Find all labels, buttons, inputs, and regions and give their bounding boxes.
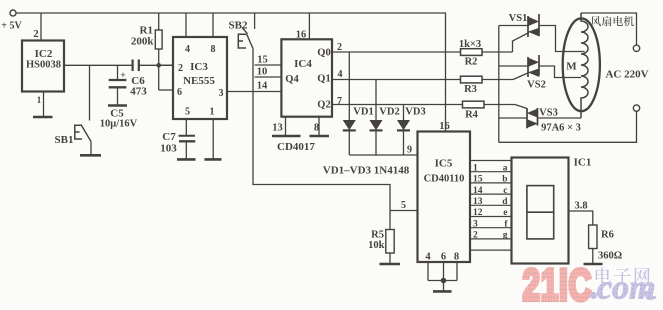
pin label 6 (IC5) bbox=[441, 252, 446, 263]
text VS2 label bbox=[527, 80, 546, 91]
svg-text:SB1: SB1 bbox=[55, 134, 74, 146]
wire IC4 pin 16 bbox=[308, 13, 310, 39]
svg-text:1: 1 bbox=[37, 95, 42, 105]
pin label 1/a segment bbox=[473, 163, 508, 173]
display IC1 digit bbox=[527, 186, 554, 239]
wire IC5 segment ladder a-g bbox=[470, 161, 512, 251]
resistor R6 bbox=[589, 225, 597, 264]
pin label 2/g segment bbox=[473, 231, 508, 241]
svg-text:4: 4 bbox=[185, 44, 190, 55]
wire IC3 pin5 to C7 bbox=[185, 119, 187, 136]
pin label 2 (IC2) bbox=[33, 29, 38, 40]
svg-text:8: 8 bbox=[454, 252, 459, 263]
pin label 13 (IC4) bbox=[272, 123, 283, 134]
svg-text:IC4: IC4 bbox=[294, 58, 312, 70]
svg-text:R5: R5 bbox=[371, 230, 384, 241]
svg-text:g: g bbox=[503, 231, 508, 241]
wire SB1 drop bbox=[89, 65, 91, 120]
value label R4 bbox=[465, 110, 479, 121]
svg-text:b: b bbox=[502, 175, 507, 185]
wire Q0 output bbox=[332, 51, 461, 53]
svg-text:HS0038: HS0038 bbox=[26, 60, 61, 71]
svg-text:473: 473 bbox=[130, 86, 147, 98]
wire IC4 pin 8 bbox=[318, 117, 320, 136]
svg-text:7: 7 bbox=[337, 96, 342, 107]
svg-text:5: 5 bbox=[185, 107, 190, 118]
svg-text:13: 13 bbox=[272, 123, 283, 134]
svg-text:IC3: IC3 bbox=[190, 61, 208, 73]
text VS1 label bbox=[509, 13, 528, 24]
svg-text:4: 4 bbox=[425, 252, 431, 263]
ground (R6) bbox=[584, 263, 603, 266]
resistor R3 bbox=[461, 76, 514, 83]
svg-text:12: 12 bbox=[473, 208, 483, 218]
switch SB1 bbox=[75, 125, 91, 155]
ground (IC2 pin1) bbox=[33, 116, 53, 119]
svg-text:5: 5 bbox=[401, 200, 406, 211]
text VD2 label bbox=[379, 107, 399, 118]
text VD1-VD3 1N4148 bbox=[323, 165, 410, 177]
pin label Q0 (IC4) bbox=[317, 48, 330, 59]
value label C5 bbox=[110, 108, 124, 120]
svg-text:com: com bbox=[597, 270, 656, 307]
ground (IC5) bbox=[433, 290, 452, 293]
svg-text:AC 220V: AC 220V bbox=[605, 69, 648, 81]
svg-text:1: 1 bbox=[473, 163, 478, 173]
pin label 4 (IC5) bbox=[425, 252, 431, 263]
wire IC3 pin3 to IC4 pin14 bbox=[227, 91, 281, 93]
counter IC5 CD40110 bbox=[418, 132, 471, 263]
resistor R5 bbox=[386, 211, 394, 264]
pin label 4 (IC3) bbox=[185, 44, 190, 55]
svg-text:14: 14 bbox=[473, 186, 483, 196]
watermark dot bbox=[590, 292, 597, 299]
svg-text:VS3: VS3 bbox=[539, 108, 558, 119]
wire SB2 top contact bbox=[254, 13, 256, 29]
text fan motor label bbox=[591, 16, 634, 26]
svg-text:R3: R3 bbox=[464, 84, 477, 95]
pin label 4 (IC4) bbox=[338, 69, 343, 80]
wire SB2 to IC5 pin5 bbox=[253, 49, 390, 211]
diode VD3 bbox=[397, 105, 410, 156]
text VD3 label bbox=[405, 107, 425, 118]
text VS3 label bbox=[539, 108, 558, 119]
svg-text:14: 14 bbox=[257, 81, 268, 92]
wire junction to IC3 pin6 bbox=[159, 89, 173, 91]
wire IC5 pin 5 bbox=[390, 210, 418, 212]
svg-text:Q1: Q1 bbox=[317, 74, 330, 85]
svg-text:2: 2 bbox=[33, 29, 38, 40]
pin label Q2 (IC4) bbox=[317, 100, 330, 111]
svg-text:1k×3: 1k×3 bbox=[459, 39, 481, 50]
svg-text:R4: R4 bbox=[465, 110, 479, 121]
ground (C5) bbox=[108, 104, 127, 107]
capacitor C7 bbox=[179, 136, 196, 160]
ground (IC4 pin8) bbox=[310, 135, 330, 138]
svg-text:3: 3 bbox=[473, 219, 478, 229]
wire diode cathodes to IC5 pin9 bbox=[349, 154, 417, 156]
value label R6 360 bbox=[598, 230, 622, 262]
pin label 3 (IC3) bbox=[219, 88, 224, 99]
wire +5V top rail bbox=[16, 13, 446, 132]
pin label 13/d segment bbox=[473, 197, 508, 207]
wire IC5 pin 4 bbox=[427, 262, 429, 281]
svg-text:15: 15 bbox=[473, 175, 483, 185]
counter IC4 CD4017 bbox=[281, 39, 332, 116]
display IC1 body bbox=[512, 158, 569, 264]
op-amp U? IC2 HS0038 receiver bbox=[22, 41, 64, 92]
watermark dianziwang bbox=[596, 267, 650, 284]
diode VD2 bbox=[370, 80, 383, 156]
svg-text:R2: R2 bbox=[465, 57, 478, 68]
pin label 14 (IC4) bbox=[257, 81, 268, 92]
svg-text:360Ω: 360Ω bbox=[598, 251, 622, 262]
svg-text:CD4017: CD4017 bbox=[277, 141, 315, 153]
pin label 5 (IC5) bbox=[401, 200, 406, 211]
value label 1kx3 bbox=[459, 39, 481, 50]
ground (C7) bbox=[177, 158, 196, 161]
value label R5 10k bbox=[368, 230, 385, 252]
svg-text:IC2: IC2 bbox=[35, 48, 53, 60]
wire IC4 pin 15 bbox=[255, 64, 282, 66]
wire R2 to VS1 gate bbox=[513, 33, 530, 53]
wire IC3 pin 8 bbox=[212, 13, 214, 37]
wire Q1 output bbox=[332, 79, 461, 81]
svg-text:Q2: Q2 bbox=[317, 100, 330, 111]
value label 10u/16V bbox=[100, 119, 138, 130]
ground (R5) bbox=[380, 263, 401, 266]
svg-text:8: 8 bbox=[314, 123, 319, 134]
svg-text:9: 9 bbox=[407, 145, 412, 156]
svg-text:IC5: IC5 bbox=[435, 158, 453, 170]
svg-text:NE555: NE555 bbox=[183, 75, 215, 87]
svg-text:VD1–VD3 1N4148: VD1–VD3 1N4148 bbox=[323, 165, 410, 177]
svg-text:15: 15 bbox=[257, 55, 268, 66]
text IC1 label bbox=[574, 157, 592, 169]
timer IC3 NE555 bbox=[173, 37, 227, 119]
svg-text:1: 1 bbox=[210, 107, 215, 118]
triac VS3 bbox=[499, 108, 581, 128]
wire AC bottom rail bbox=[499, 111, 637, 142]
svg-text:13: 13 bbox=[473, 197, 483, 207]
svg-text:VD1: VD1 bbox=[353, 107, 373, 118]
svg-text:CD40110: CD40110 bbox=[424, 174, 465, 185]
value label R3 bbox=[464, 84, 477, 95]
svg-text:C7: C7 bbox=[162, 131, 176, 143]
svg-text:10: 10 bbox=[257, 67, 268, 78]
svg-text:103: 103 bbox=[160, 143, 177, 155]
wire IC4 pin 13 bbox=[285, 117, 287, 136]
svg-text:Q4: Q4 bbox=[285, 74, 299, 85]
text SB1 label bbox=[55, 134, 74, 146]
text SB2 label bbox=[229, 20, 248, 32]
svg-text:a: a bbox=[503, 163, 508, 173]
wire IC5 bottom bus bbox=[428, 280, 457, 282]
svg-text:3.8: 3.8 bbox=[574, 201, 587, 212]
wire R4 to VS3 gate bbox=[515, 105, 527, 109]
wire junction to IC3 pin2 bbox=[159, 64, 173, 66]
node +5V supply terminal bbox=[1, 10, 22, 32]
capacitor C6 bbox=[133, 60, 173, 72]
svg-text:10μ/16V: 10μ/16V bbox=[100, 119, 138, 130]
resistor R2 bbox=[461, 49, 513, 56]
pin label 14/c segment bbox=[473, 186, 508, 196]
svg-text:21IC: 21IC bbox=[523, 261, 593, 310]
wire motor top to AC top bbox=[581, 13, 637, 45]
terminal AC bottom bbox=[633, 105, 639, 111]
svg-text:200k: 200k bbox=[131, 36, 155, 48]
pin label 3.8 (IC1) bbox=[574, 201, 587, 212]
svg-text:+: + bbox=[120, 71, 125, 81]
svg-text:6: 6 bbox=[177, 87, 182, 98]
motor winding coil bbox=[581, 13, 588, 118]
watermark com bbox=[597, 270, 656, 307]
ground (IC4 pin13) bbox=[272, 135, 301, 138]
capacitor C5 bbox=[109, 65, 127, 105]
wire R3 to VS2 gate bbox=[513, 73, 529, 80]
diode VD1 bbox=[343, 52, 356, 155]
pin label 12/e segment bbox=[473, 208, 508, 218]
wire IC3 pin1 down bbox=[212, 119, 214, 159]
value label 97A6 x3 bbox=[541, 123, 581, 134]
pin label 8b (IC4) bbox=[314, 123, 319, 134]
svg-text:VD3: VD3 bbox=[405, 107, 425, 118]
wire IC5 pin 8 bbox=[456, 262, 458, 281]
resistor R1 bbox=[155, 13, 162, 90]
watermark 21IC bbox=[523, 261, 593, 310]
pin label Q1 (IC4) bbox=[317, 74, 330, 85]
svg-text:c: c bbox=[503, 186, 507, 196]
wire IC1 to R6 bbox=[569, 211, 593, 225]
svg-text:8: 8 bbox=[211, 44, 216, 55]
pin label 1 (IC2) bbox=[37, 95, 42, 105]
pin label 8 (IC3) bbox=[211, 44, 216, 55]
pin label 15 (IC4) bbox=[257, 55, 268, 66]
pin label 16 (IC4) bbox=[296, 30, 307, 41]
node IC5 ground junction bbox=[441, 278, 447, 284]
switch SB2 bbox=[238, 28, 253, 49]
triac VS2 bbox=[499, 55, 581, 78]
motor M fan ellipse bbox=[563, 18, 600, 111]
svg-text:M: M bbox=[566, 61, 577, 73]
pin label 16 (IC5) bbox=[439, 121, 450, 132]
svg-text:SB2: SB2 bbox=[229, 20, 248, 32]
pin label 10 (IC4) bbox=[257, 67, 268, 78]
svg-text:10k: 10k bbox=[368, 240, 385, 251]
pin label 15/b segment bbox=[473, 175, 508, 185]
pin label 9 (IC5) bbox=[407, 145, 412, 156]
value label R2 bbox=[465, 57, 478, 68]
svg-text:VS2: VS2 bbox=[527, 80, 546, 91]
value label R1 200k bbox=[131, 25, 155, 48]
svg-text:R6: R6 bbox=[601, 230, 614, 241]
ground (IC3 pin1) bbox=[204, 158, 221, 161]
wire to IC5 ground bbox=[443, 281, 445, 292]
wire IC4 pin 10 bbox=[255, 76, 282, 78]
pin label 2 (IC3) bbox=[178, 63, 183, 74]
wire IC2 output bbox=[64, 64, 133, 66]
value label C6 bbox=[130, 75, 147, 98]
svg-text:VD2: VD2 bbox=[379, 107, 399, 118]
pin label 3/f segment bbox=[473, 219, 508, 229]
svg-text:3: 3 bbox=[219, 88, 224, 99]
wire IC2 pin 1 bbox=[43, 92, 45, 118]
pin label 6 (IC3) bbox=[177, 87, 182, 98]
wire triac common line bbox=[498, 26, 500, 143]
text AC 220V bbox=[605, 69, 648, 81]
text VD1 label bbox=[353, 107, 373, 118]
resistor R4 bbox=[463, 101, 516, 108]
svg-text:d: d bbox=[502, 197, 508, 207]
wire IC2 pin 2 bbox=[40, 13, 42, 41]
svg-text:e: e bbox=[503, 208, 507, 218]
svg-text:+ 5V: + 5V bbox=[1, 21, 22, 32]
wire Q2 output bbox=[332, 104, 463, 106]
text CD4017 label bbox=[277, 141, 315, 153]
text M label bbox=[566, 61, 577, 73]
wire IC5 pin 6 bbox=[443, 262, 445, 281]
node R1/C6 junction bbox=[156, 63, 161, 68]
svg-text:IC1: IC1 bbox=[574, 157, 592, 169]
svg-text:6: 6 bbox=[441, 252, 446, 263]
pin label 2 (IC4) bbox=[337, 42, 342, 53]
svg-text:VS1: VS1 bbox=[509, 13, 528, 24]
pin label 8 (IC5) bbox=[454, 252, 459, 263]
svg-text:Q0: Q0 bbox=[317, 48, 330, 59]
pin label 5 (IC3) bbox=[185, 107, 190, 118]
svg-text:4: 4 bbox=[338, 69, 343, 80]
svg-text:2: 2 bbox=[178, 63, 183, 74]
triac VS1 bbox=[499, 14, 585, 52]
wire IC3 pin 4 bbox=[185, 13, 187, 37]
value label C7 103 bbox=[160, 131, 177, 155]
terminal AC top bbox=[633, 45, 639, 51]
pin label 7 (IC4) bbox=[337, 96, 342, 107]
svg-text:16: 16 bbox=[439, 121, 450, 132]
svg-text:97A6 × 3: 97A6 × 3 bbox=[541, 123, 581, 134]
pin label 1 (IC3) bbox=[210, 107, 215, 118]
ground (SB1) bbox=[80, 154, 101, 157]
svg-text:2: 2 bbox=[473, 231, 478, 241]
